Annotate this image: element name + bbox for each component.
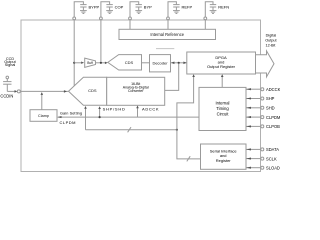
pin REFN circle bbox=[204, 17, 207, 20]
arrowhead into clamp bbox=[58, 116, 62, 118]
pin SLOAD bbox=[246, 165, 280, 170]
svg-text:SDATA: SDATA bbox=[266, 147, 279, 152]
wire clamp to CCDIN node bbox=[41, 94, 43, 110]
svg-text:Output Register: Output Register bbox=[207, 64, 236, 69]
wire BYPP node to buffer bbox=[74, 62, 81, 64]
input terminal bbox=[6, 76, 9, 79]
decoder block bbox=[150, 55, 171, 72]
pin SDATA bbox=[246, 147, 279, 152]
wire stub above decoder bbox=[156, 48, 174, 50]
wire into CCDIN pin bbox=[7, 90, 16, 92]
chip outline (main block) bbox=[21, 20, 261, 172]
svg-text:BYPP: BYPP bbox=[89, 4, 100, 9]
bus slash on serial wire bbox=[187, 156, 190, 161]
svg-text:REFP: REFP bbox=[182, 4, 193, 9]
capacitor C2 (COP) bbox=[101, 2, 113, 17]
svg-text:SHP: SHP bbox=[266, 96, 275, 101]
svg-text:Circuit: Circuit bbox=[217, 112, 230, 117]
svg-text:Internal Reference: Internal Reference bbox=[150, 32, 184, 37]
node dot BYPP/buffer bbox=[73, 62, 75, 64]
clock arrow into CDS (second) bbox=[98, 106, 101, 118]
pin SCLK bbox=[246, 156, 277, 161]
wire timing to DPGA bbox=[221, 76, 223, 87]
node dot ADC data bbox=[178, 62, 180, 64]
svg-text:ADCCK: ADCCK bbox=[266, 87, 280, 92]
svg-text:Output: Output bbox=[265, 39, 277, 43]
clock arrow into CDS bbox=[84, 106, 87, 130]
node dot gain bus bbox=[176, 129, 178, 131]
wire gain bus up to DPGA bbox=[177, 76, 194, 130]
internal reference block bbox=[119, 29, 216, 39]
ADC block bbox=[107, 77, 165, 105]
serial interface and register block bbox=[201, 144, 247, 169]
DPGA and output register block bbox=[187, 52, 256, 74]
svg-text:ADCCK: ADCCK bbox=[142, 107, 159, 112]
svg-text:CLPOB: CLPOB bbox=[266, 124, 280, 129]
arrowhead timing to DPGA bbox=[221, 74, 224, 77]
svg-text:COP: COP bbox=[115, 4, 124, 9]
pin SHP bbox=[246, 96, 275, 101]
capacitor C3 (BYP) bbox=[130, 2, 142, 17]
arrowhead into CDS1 bbox=[105, 62, 108, 65]
capacitor C1 (BYPP) bbox=[74, 2, 87, 17]
capacitor C4 (REFP) bbox=[168, 2, 180, 17]
pin COP circle bbox=[100, 17, 103, 20]
arrowhead into CCDIN bbox=[15, 90, 18, 93]
wire BYP pin down to internal reference bbox=[129, 20, 131, 30]
gain bus line B bbox=[86, 129, 177, 131]
svg-text:Timing: Timing bbox=[216, 106, 229, 111]
CDS block (upper) bbox=[108, 55, 142, 70]
svg-text:CDS: CDS bbox=[125, 60, 134, 65]
svg-text:Signal: Signal bbox=[5, 63, 16, 67]
pin CLPOB bbox=[246, 124, 280, 129]
digital output label bbox=[265, 33, 277, 47]
svg-text:Buff: Buff bbox=[87, 61, 93, 65]
CDS block (lower) bbox=[69, 77, 107, 105]
svg-text:Internal: Internal bbox=[216, 101, 230, 106]
svg-text:Converter: Converter bbox=[128, 89, 144, 93]
pin ADCCK bbox=[246, 87, 281, 92]
wire CCDIN to CDS input bbox=[21, 90, 68, 92]
pin CLPDM bbox=[246, 115, 281, 120]
svg-text:Gain Setting: Gain Setting bbox=[60, 112, 82, 116]
svg-text:CLPDM: CLPDM bbox=[266, 115, 280, 120]
wire BYPP pin down to buffer input node bbox=[73, 20, 75, 86]
svg-text:SHP/SHD: SHP/SHD bbox=[103, 107, 126, 112]
arrowhead into decoder bbox=[171, 62, 174, 65]
svg-text:SCLK: SCLK bbox=[266, 156, 277, 161]
capacitor C5 (REFN) bbox=[205, 2, 216, 17]
bus slash on line B bbox=[128, 127, 131, 132]
CCD output signal label bbox=[4, 57, 16, 67]
pin SHD bbox=[246, 106, 275, 111]
clamp block bbox=[30, 110, 57, 122]
svg-text:Register: Register bbox=[216, 158, 232, 163]
wire buffer output to COP node bbox=[96, 62, 106, 64]
arrowhead clamp to input wire bbox=[41, 92, 44, 95]
pin BYP circle bbox=[129, 17, 132, 20]
wire COP pin down to CDS1 input node bbox=[100, 20, 102, 63]
svg-text:CLPDM: CLPDM bbox=[60, 120, 77, 125]
node dot COP bbox=[100, 62, 102, 64]
wire REFN pin down to internal reference bbox=[204, 20, 206, 30]
svg-text:CDS: CDS bbox=[88, 88, 97, 93]
svg-text:12-Bit: 12-Bit bbox=[266, 43, 277, 47]
pin REFP circle bbox=[167, 17, 170, 20]
svg-text:BYP: BYP bbox=[144, 4, 152, 9]
arrowhead into DPGA bbox=[183, 62, 186, 65]
wire ADC output staircase to decoder/DPGA node bbox=[165, 64, 179, 91]
pin CCDIN circle bbox=[17, 90, 20, 93]
wire CDS1 to decoder bbox=[142, 62, 150, 64]
svg-text:CCDIN: CCDIN bbox=[0, 93, 13, 98]
coupling capacitor bbox=[3, 79, 11, 92]
svg-text:Clamp: Clamp bbox=[38, 114, 49, 118]
digital output bus arrow bbox=[256, 51, 275, 77]
svg-text:SHD: SHD bbox=[266, 106, 275, 111]
internal timing circuit block bbox=[199, 87, 246, 130]
svg-text:REFN: REFN bbox=[218, 4, 229, 9]
wire REFP pin down to internal reference bbox=[167, 20, 169, 30]
svg-text:Digital: Digital bbox=[266, 33, 277, 37]
buffer amp (Buff) bbox=[81, 58, 95, 67]
pin BYPP circle bbox=[73, 17, 76, 20]
arrowhead into CDS bbox=[64, 90, 67, 93]
clock arrow into ADC bbox=[136, 106, 139, 118]
arrowhead into DPGA bottom (gain) bbox=[192, 74, 195, 77]
wire decoder-DPGA with junction bbox=[171, 62, 187, 64]
timing bus line A bbox=[58, 116, 199, 118]
wire serial register to gain bus bbox=[177, 130, 201, 159]
svg-text:Decoder: Decoder bbox=[152, 60, 168, 65]
svg-text:SLOAD: SLOAD bbox=[266, 165, 280, 170]
